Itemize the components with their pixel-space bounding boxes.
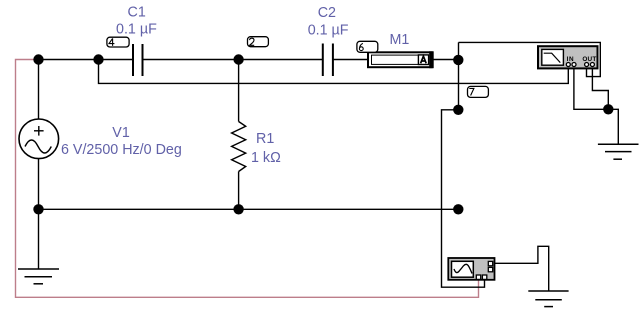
wire scope right terminal to ground G3 <box>492 246 549 291</box>
svg-text:C1: C1 <box>128 4 146 20</box>
junction node 2 <box>233 54 243 64</box>
junction node A V1 top <box>33 54 43 64</box>
junction bus drop <box>93 54 103 64</box>
svg-text:0.1 µF: 0.1 µF <box>308 22 349 38</box>
voltage source V1 <box>19 119 59 159</box>
svg-text:R1: R1 <box>256 131 274 147</box>
bode plotter <box>538 46 598 68</box>
svg-text:IN: IN <box>567 56 575 63</box>
wire R1 bottom lead <box>238 172 240 210</box>
svg-text:C2: C2 <box>318 5 336 21</box>
node label 4 <box>107 37 129 47</box>
wire C2 to ammeter M1 <box>333 59 368 61</box>
wire bode plotter IN- down to ground junction <box>574 67 608 110</box>
wire red selected net: left vertical and bottom run <box>16 60 479 298</box>
wire top bus from node A to C1 <box>39 59 134 61</box>
wire vertical from bode OUT feed down through bus to lower junction <box>458 42 460 110</box>
wire bottom bus <box>39 208 459 210</box>
wire R1 top lead <box>238 60 240 122</box>
svg-text:1 kΩ: 1 kΩ <box>251 150 281 166</box>
svg-text:0.1 µF: 0.1 µF <box>116 21 157 37</box>
node label 6 <box>357 41 378 52</box>
svg-text:M1: M1 <box>390 32 410 48</box>
svg-text:6 V/2500 Hz/0 Deg: 6 V/2500 Hz/0 Deg <box>61 142 182 158</box>
junction node 7 <box>453 105 463 115</box>
svg-text:V1: V1 <box>112 125 130 141</box>
wire C1 to node 2 junction <box>143 59 239 61</box>
ground G3 <box>528 291 568 307</box>
ground G1 <box>18 269 59 284</box>
wire V1 bottom lead to bottom bus <box>38 159 40 210</box>
node label 7 <box>468 86 489 97</box>
capacitor C2 <box>323 44 333 77</box>
wire bode plotter OUT- down to ground junction <box>592 67 608 110</box>
ammeter M1 <box>368 51 433 68</box>
junction node 6 output <box>453 55 463 65</box>
junction bode ground <box>603 104 613 114</box>
oscilloscope <box>448 258 494 280</box>
wire ground junction to ground G2 <box>608 109 618 144</box>
junction R1 bottom <box>233 204 243 214</box>
svg-text:OUT: OUT <box>582 56 596 63</box>
capacitor C1 <box>133 44 143 76</box>
wire bottom junction to ground G1 <box>38 209 40 269</box>
junction V1 bottom <box>33 204 43 214</box>
wire jog from junction to scope column <box>442 110 485 287</box>
wire long middle bus to bode plotter IN+ <box>99 60 569 84</box>
ground G2 <box>598 144 639 159</box>
resistor R1 <box>232 122 246 172</box>
wire top horizontal to bode plotter OUT+ <box>459 42 601 76</box>
junction bottom bus end <box>453 204 463 214</box>
wire V1 top lead <box>38 60 40 120</box>
wire M1 to node 6 output junction <box>433 59 459 61</box>
wire node 2 junction to C2 <box>239 59 323 61</box>
node label 2 <box>248 37 269 47</box>
